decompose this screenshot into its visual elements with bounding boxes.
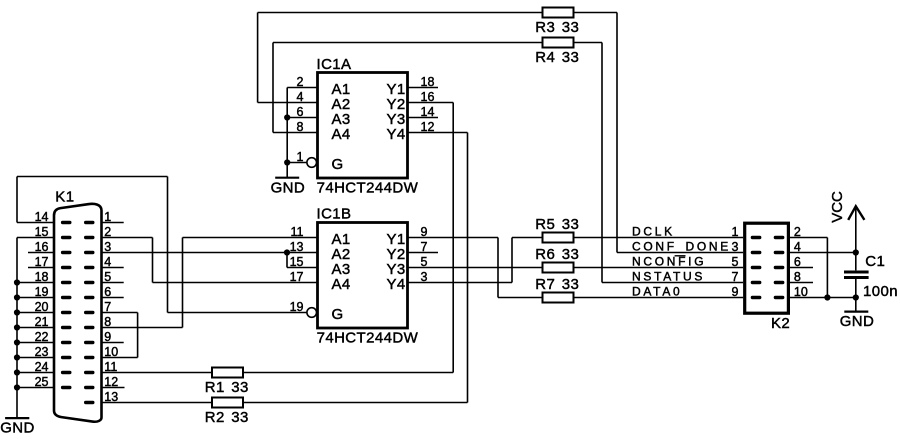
svg-text:74HCT244DW: 74HCT244DW bbox=[317, 330, 419, 347]
svg-text:R7: R7 bbox=[535, 276, 555, 293]
svg-text:5: 5 bbox=[421, 255, 428, 269]
svg-text:33: 33 bbox=[562, 49, 580, 66]
svg-text:IC1A: IC1A bbox=[317, 56, 352, 73]
svg-text:6: 6 bbox=[794, 255, 801, 269]
svg-text:15: 15 bbox=[35, 225, 49, 239]
svg-text:6: 6 bbox=[104, 285, 111, 299]
svg-text:14: 14 bbox=[421, 105, 435, 119]
svg-text:18: 18 bbox=[35, 270, 49, 284]
svg-text:22: 22 bbox=[35, 330, 49, 344]
svg-text:12: 12 bbox=[104, 375, 118, 389]
svg-text:G: G bbox=[332, 156, 344, 173]
svg-text:R4: R4 bbox=[535, 49, 555, 66]
svg-text:2: 2 bbox=[794, 225, 801, 239]
svg-text:3: 3 bbox=[421, 270, 428, 284]
svg-text:15: 15 bbox=[290, 255, 304, 269]
svg-text:7: 7 bbox=[731, 270, 738, 284]
svg-text:5: 5 bbox=[104, 270, 111, 284]
svg-text:2: 2 bbox=[297, 75, 304, 89]
svg-text:4: 4 bbox=[297, 90, 304, 104]
svg-text:7: 7 bbox=[104, 300, 111, 314]
svg-text:IC1B: IC1B bbox=[317, 206, 352, 223]
svg-text:33: 33 bbox=[562, 216, 580, 233]
svg-text:19: 19 bbox=[35, 285, 49, 299]
svg-text:Y4: Y4 bbox=[387, 276, 406, 293]
svg-text:R6: R6 bbox=[535, 246, 555, 263]
svg-text:10: 10 bbox=[104, 345, 118, 359]
svg-text:18: 18 bbox=[421, 75, 435, 89]
svg-text:1: 1 bbox=[731, 225, 738, 239]
svg-text:4: 4 bbox=[794, 240, 801, 254]
svg-text:GND: GND bbox=[271, 179, 306, 196]
svg-text:74HCT244DW: 74HCT244DW bbox=[317, 180, 419, 197]
svg-text:A4: A4 bbox=[332, 276, 351, 293]
svg-text:4: 4 bbox=[104, 255, 111, 269]
svg-text:DATA0: DATA0 bbox=[632, 285, 682, 299]
svg-text:R5: R5 bbox=[535, 216, 555, 233]
svg-text:K1: K1 bbox=[55, 188, 74, 205]
svg-text:NSTATUS: NSTATUS bbox=[632, 270, 705, 284]
svg-text:14: 14 bbox=[35, 210, 49, 224]
svg-text:10: 10 bbox=[794, 285, 808, 299]
svg-text:11: 11 bbox=[104, 360, 117, 374]
svg-text:33: 33 bbox=[231, 379, 249, 396]
svg-text:8: 8 bbox=[104, 315, 111, 329]
svg-text:19: 19 bbox=[290, 300, 304, 314]
svg-text:33: 33 bbox=[562, 246, 580, 263]
svg-text:R1: R1 bbox=[205, 379, 225, 396]
svg-text:17: 17 bbox=[290, 270, 304, 284]
svg-text:3: 3 bbox=[104, 240, 111, 254]
svg-text:23: 23 bbox=[35, 345, 49, 359]
svg-text:100n: 100n bbox=[863, 283, 898, 300]
svg-text:25: 25 bbox=[35, 375, 49, 389]
svg-text:8: 8 bbox=[297, 120, 304, 134]
svg-text:6: 6 bbox=[297, 105, 304, 119]
svg-text:A4: A4 bbox=[332, 126, 351, 143]
svg-text:C1: C1 bbox=[865, 253, 885, 270]
svg-text:21: 21 bbox=[35, 315, 49, 329]
svg-text:24: 24 bbox=[35, 360, 49, 374]
svg-text:12: 12 bbox=[421, 120, 435, 134]
svg-text:2: 2 bbox=[104, 225, 111, 239]
svg-text:33: 33 bbox=[231, 409, 249, 426]
svg-text:9: 9 bbox=[731, 285, 738, 299]
svg-text:1: 1 bbox=[297, 150, 304, 164]
svg-text:VCC: VCC bbox=[829, 191, 846, 223]
svg-text:CONF DONE: CONF DONE bbox=[632, 240, 731, 254]
svg-text:K2: K2 bbox=[771, 315, 790, 332]
svg-text:3: 3 bbox=[731, 240, 738, 254]
svg-text:5: 5 bbox=[731, 255, 738, 269]
svg-text:Y4: Y4 bbox=[387, 126, 406, 143]
svg-text:G: G bbox=[332, 306, 344, 323]
svg-text:33: 33 bbox=[562, 19, 580, 36]
svg-text:13: 13 bbox=[104, 390, 118, 404]
svg-text:9: 9 bbox=[104, 330, 111, 344]
svg-text:8: 8 bbox=[794, 270, 801, 284]
svg-text:9: 9 bbox=[421, 225, 428, 239]
svg-text:DCLK: DCLK bbox=[632, 225, 675, 239]
svg-text:11: 11 bbox=[291, 225, 304, 239]
svg-text:17: 17 bbox=[35, 255, 49, 269]
svg-text:NCONFIG: NCONFIG bbox=[632, 255, 706, 269]
svg-text:R3: R3 bbox=[535, 19, 555, 36]
svg-text:GND: GND bbox=[840, 313, 875, 330]
svg-text:1: 1 bbox=[104, 210, 111, 224]
svg-text:GND: GND bbox=[0, 420, 35, 437]
svg-text:20: 20 bbox=[35, 300, 49, 314]
svg-text:7: 7 bbox=[421, 240, 428, 254]
svg-text:16: 16 bbox=[421, 90, 435, 104]
svg-text:33: 33 bbox=[562, 276, 580, 293]
svg-text:R2: R2 bbox=[205, 409, 225, 426]
svg-text:16: 16 bbox=[35, 240, 49, 254]
svg-text:13: 13 bbox=[290, 240, 304, 254]
